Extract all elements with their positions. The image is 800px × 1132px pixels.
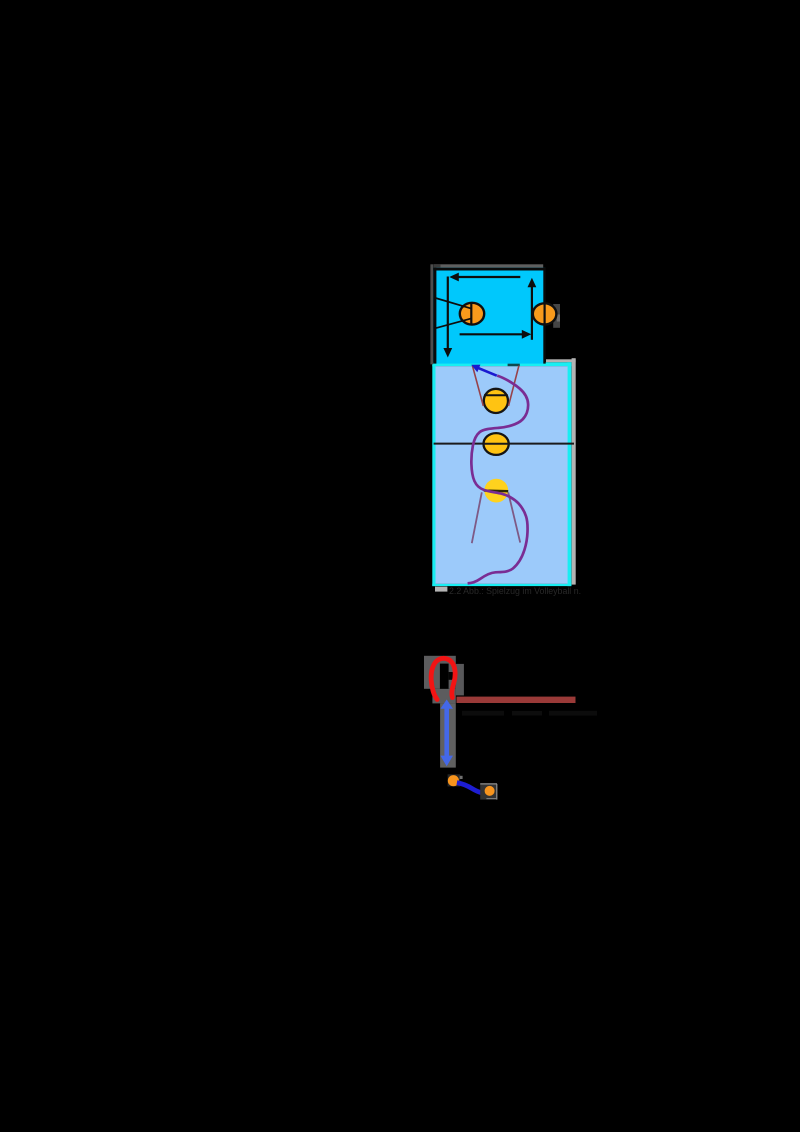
lower court: leg line bottom-left [472, 492, 482, 543]
lower court: ball 1 chord [484, 394, 508, 396]
lower court: ball 3 dark chord [484, 489, 508, 492]
upper court: left player vertical line [470, 303, 472, 324]
lower court: net line [434, 443, 574, 445]
figure 2: light tick near small ball 1 [460, 776, 463, 779]
lower court: serve line top-left [472, 366, 483, 406]
figure 2: gray patch C [432, 689, 455, 704]
upper court: arrow to right (bottom) [460, 333, 523, 335]
upper court: left player ellipse [460, 303, 484, 325]
figure 1: upper court cyan box fill [433, 268, 545, 364]
upper court: left vertical line with down arrow [447, 277, 449, 349]
figure 2: small ball 2 [485, 786, 495, 796]
figure 1: lower court cyan border top [432, 362, 571, 366]
upper court: right vertical line with up arrow [531, 286, 533, 340]
figure 2: blue double arrow shaft [444, 707, 449, 758]
figure 2: blue double arrow bottom head [440, 756, 453, 767]
figure 1: lower court cyan border bottom [432, 584, 571, 586]
upper court: arrow to left (top) [458, 276, 521, 278]
figure 2: small ball 2 light border right [496, 784, 498, 800]
figure 1: lower court cyan border right [567, 362, 571, 586]
upper court: pass line upper [436, 298, 471, 308]
figure 1: lower court gray outer border (right strip) [572, 358, 576, 584]
figure 1: upper court black border left [433, 268, 436, 364]
figure 2: small ball 1 shadow [448, 774, 461, 786]
lower court: ball 3 [484, 479, 508, 503]
figure 2: dark red horizontal bar [457, 697, 576, 703]
lower court: ball 1 [484, 389, 508, 413]
figure 2: small ball 1 [448, 775, 459, 786]
lower court: blue arrow shaft [478, 368, 497, 376]
figure 2: gray strip D [440, 703, 456, 767]
figure 2: gray patch B [456, 664, 464, 696]
upper court: pass line lower [436, 319, 471, 329]
svg-text:2.2 Abb.: Spielzug im Volleyba: 2.2 Abb.: Spielzug im Volleyball n. [449, 586, 581, 596]
figure 1: lower court light blue fill [436, 366, 568, 584]
upper court: right player gray shadow [553, 304, 560, 328]
upper court: right player ellipse [533, 303, 557, 324]
lower court: purple ball path [468, 376, 529, 584]
lower court: blue arrow head [471, 365, 480, 373]
figure 2: small ball 2 light border top [480, 783, 497, 785]
figure 1: lower court gray outer border (top-right) [546, 359, 576, 362]
figure 2: small ball 2 light dash bottom [486, 798, 496, 800]
figure 1: upper court black border right [543, 268, 545, 364]
lower court: net line through ball 2 [484, 443, 509, 445]
figure 1: upper court gray band above [434, 264, 544, 267]
figure 1: upper court gray band dark left end [434, 264, 441, 267]
figure 2: black hole 1 [440, 664, 449, 689]
figure 1: upper court black border top [433, 268, 545, 271]
figure 2: blue double arrow top head [440, 700, 453, 709]
lower court: leg line bottom-right [508, 492, 520, 542]
figure 1: lower court cyan border left [432, 362, 435, 586]
figure 2: faint text smudges [462, 711, 504, 716]
caption gray block [435, 587, 447, 592]
figure 2: blue link segment [457, 783, 483, 793]
figure 2: gray patch A [424, 656, 456, 689]
lower court: serve line top-right [509, 366, 519, 406]
lower court: ball 2 [484, 433, 509, 455]
figure 2: small ball 2 shadow [480, 784, 496, 799]
figure 1: net post mark [508, 364, 520, 367]
figure 2: black hole 2 [449, 672, 456, 680]
figure 1: upper court gray strip left [430, 264, 433, 364]
upper court: right player vertical line [543, 304, 545, 325]
figure 2: red loop [431, 658, 455, 699]
